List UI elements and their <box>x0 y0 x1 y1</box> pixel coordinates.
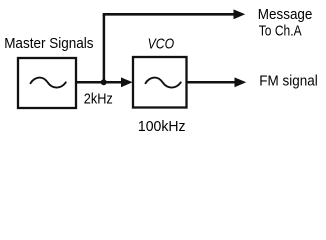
svg-text:Master Signals: Master Signals <box>4 36 93 52</box>
block "Master Signals" (box U1) <box>18 58 76 108</box>
sine symbol inside Master Signals box <box>31 78 66 88</box>
wire from Master Signals box to VCO arrow <box>76 81 123 84</box>
arrowhead Message To Ch.A <box>234 9 246 19</box>
svg-text:100kHz: 100kHz <box>138 119 186 135</box>
wire vertical from junction up <box>103 14 106 82</box>
wire horizontal top to Message arrow <box>103 13 235 16</box>
svg-text:2kHz: 2kHz <box>84 92 113 108</box>
block VCO (box U2) <box>133 57 187 108</box>
arrowhead into VCO <box>121 77 133 87</box>
svg-text:To Ch.A: To Ch.A <box>259 24 302 40</box>
svg-text:Message: Message <box>258 7 313 23</box>
svg-text:FM signal: FM signal <box>259 74 317 90</box>
junction node dot <box>101 79 107 85</box>
wire from VCO to FM signal arrow <box>187 81 236 84</box>
arrowhead FM signal <box>235 77 247 87</box>
sine symbol inside VCO box <box>146 78 181 88</box>
svg-text:VCO: VCO <box>148 36 175 53</box>
